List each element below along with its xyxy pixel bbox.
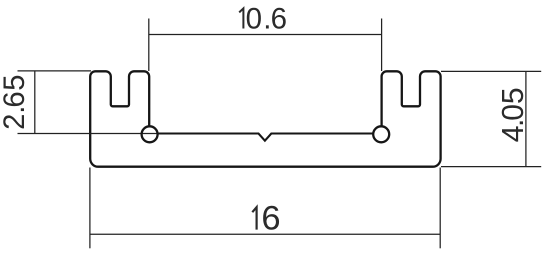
dimension line 16 <box>90 233 440 235</box>
inner surface with center V-notch <box>158 134 373 141</box>
svg-text:2.65: 2.65 <box>0 74 31 129</box>
extension line 4.05 bottom <box>441 166 541 168</box>
profile outline <box>90 71 440 166</box>
dimension line 2.65 <box>34 71 36 134</box>
dimension line 4.05 <box>525 71 527 166</box>
screw hole right <box>373 126 389 142</box>
extension line 16 right <box>439 168 441 249</box>
extension line 16 left <box>89 168 91 249</box>
label 10.6 digit one <box>239 8 243 28</box>
extension line 4.05 top <box>441 70 541 72</box>
svg-text:4.05: 4.05 <box>497 87 530 142</box>
extension line 2.65 top <box>18 70 92 72</box>
dimension line 10.6 <box>149 34 382 36</box>
svg-text:6: 6 <box>261 200 280 238</box>
label 4.05 <box>497 87 530 142</box>
extension line 10.6 right <box>381 19 383 72</box>
label 16 digit one <box>252 207 256 229</box>
svg-text:0.6: 0.6 <box>246 3 287 36</box>
screw hole left <box>142 126 158 142</box>
extension line 2.65 bottom <box>18 133 158 135</box>
extension line 10.6 left <box>148 19 150 72</box>
label 2.65 <box>0 74 31 129</box>
